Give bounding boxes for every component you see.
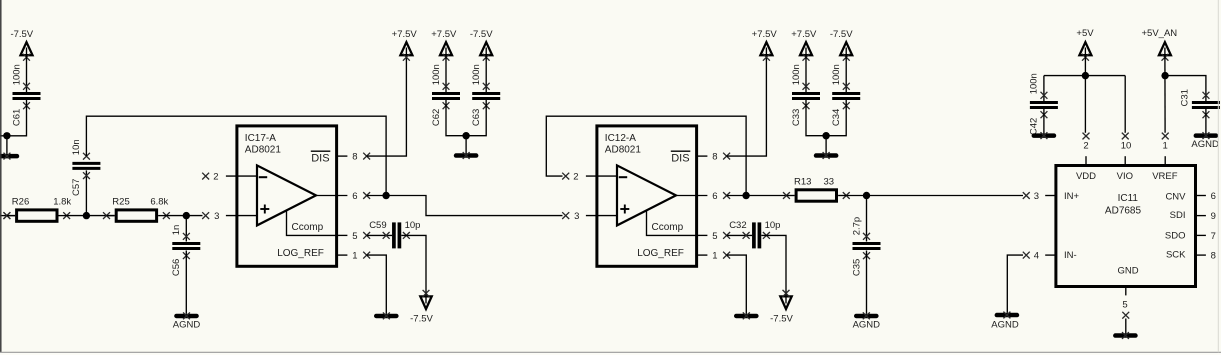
svg-text:1: 1 xyxy=(352,251,357,262)
wire feedback loop IC12-A xyxy=(546,116,746,195)
svg-text:VIO: VIO xyxy=(1117,171,1133,182)
wire R25 to IC17-A pin 3 node xyxy=(166,215,202,217)
svg-text:+7.5V: +7.5V xyxy=(752,29,778,40)
resistor R25 6.8k xyxy=(116,210,156,221)
svg-text:Ccomp: Ccomp xyxy=(652,222,684,233)
svg-text:C56: C56 xyxy=(171,259,182,276)
ground bar below pin 1 IC12-A xyxy=(734,314,759,319)
capacitor C31 100n xyxy=(1203,92,1210,99)
svg-text:2: 2 xyxy=(573,171,578,182)
pin 5 Ccomp IC17-A xyxy=(337,234,348,236)
svg-text:IC17-A: IC17-A xyxy=(245,133,276,144)
svg-text:C42: C42 xyxy=(1029,118,1040,135)
supply -7.5V arrow top left xyxy=(21,42,33,55)
resistor R26 1.8k xyxy=(17,210,57,221)
pin 3 non-inverting input IC12-A xyxy=(562,212,569,219)
wire C32 to -7.5V xyxy=(761,235,786,296)
svg-text:IN+: IN+ xyxy=(1064,191,1080,202)
wire input net IN- entry at left edge xyxy=(0,215,15,217)
svg-text:R13: R13 xyxy=(794,176,811,187)
svg-text:LOG_REF: LOG_REF xyxy=(637,248,684,259)
node junction R26/R25/C57 xyxy=(83,212,90,219)
svg-text:1n: 1n xyxy=(171,225,182,236)
svg-text:7: 7 xyxy=(1211,231,1216,242)
Ccomp internal line IC17-A xyxy=(287,211,337,235)
svg-text:SCK: SCK xyxy=(1166,249,1186,260)
svg-text:-7.5V: -7.5V xyxy=(470,29,493,40)
svg-text:C33: C33 xyxy=(791,109,802,126)
page bottom separator line xyxy=(0,352,1221,355)
pin 3 IN+ IC11 xyxy=(1023,192,1030,199)
svg-text:C32: C32 xyxy=(729,220,746,231)
svg-text:100n: 100n xyxy=(791,64,802,85)
svg-text:10p: 10p xyxy=(765,220,781,231)
pin 4 IN- IC11 xyxy=(1023,252,1030,259)
node output junction IC17-A xyxy=(382,192,389,199)
node junction C61/ground xyxy=(3,132,10,139)
supply +5V arrow xyxy=(1079,42,1091,55)
svg-text:C61: C61 xyxy=(11,109,22,126)
svg-text:SDI: SDI xyxy=(1170,210,1186,221)
svg-text:CNV: CNV xyxy=(1165,191,1186,202)
pin 5 Ccomp IC12-A xyxy=(697,234,708,236)
svg-text:2: 2 xyxy=(1083,141,1088,152)
supply +7.5V arrow above C62 xyxy=(440,42,452,55)
svg-text:+7.5V: +7.5V xyxy=(431,29,457,40)
capacitor C34 100n xyxy=(845,55,847,92)
supply +5V_AN arrow xyxy=(1159,42,1171,55)
svg-text:SDO: SDO xyxy=(1165,231,1186,242)
resistor R13 33 xyxy=(746,195,786,197)
svg-text:C63: C63 xyxy=(471,109,482,126)
ground bar below C62/C63 xyxy=(465,136,467,154)
op-amp U IC12-A AD8021 box xyxy=(597,126,697,266)
svg-text:2: 2 xyxy=(213,171,218,182)
svg-text:GND: GND xyxy=(1118,265,1139,276)
ground AGND below C56 xyxy=(174,314,199,319)
svg-text:5: 5 xyxy=(712,231,717,242)
pin 8 DIS IC17-A xyxy=(337,155,348,157)
pin 2 inverting input IC12-A xyxy=(562,173,569,180)
svg-text:5: 5 xyxy=(352,231,357,242)
supply -7.5V arrow below C59 xyxy=(420,296,431,309)
pin 1 VREF IC11 xyxy=(1162,133,1169,140)
svg-text:C34: C34 xyxy=(831,109,842,126)
pin 8 DIS IC12-A xyxy=(697,155,708,157)
capacitor C56 1n xyxy=(185,216,187,242)
wire R26 to R25 with node xyxy=(67,215,115,217)
pin 6 output IC12-A xyxy=(676,195,707,197)
ground bar below C33/C34 xyxy=(825,136,827,154)
svg-text:-7.5V: -7.5V xyxy=(830,29,853,40)
node output junction IC12-A xyxy=(742,192,749,199)
svg-text:C31: C31 xyxy=(1180,89,1191,106)
wire +5V_AN to VREF and C31 xyxy=(1164,55,1166,133)
node junction C33/C34 xyxy=(822,132,829,139)
supply -7.5V arrow above C63 xyxy=(480,42,492,55)
svg-text:8: 8 xyxy=(1211,251,1216,262)
svg-text:LOG_REF: LOG_REF xyxy=(277,248,324,259)
capacitor C33 100n xyxy=(805,55,807,92)
node junction R13/C35 xyxy=(863,192,870,199)
pin 2 VDD IC11 xyxy=(1083,133,1090,140)
svg-text:AGND: AGND xyxy=(853,320,881,331)
svg-text:3: 3 xyxy=(1034,191,1039,202)
svg-text:100n: 100n xyxy=(431,64,442,85)
svg-text:3: 3 xyxy=(574,211,579,222)
op-amp U IC17-A AD8021 box xyxy=(237,126,337,266)
pin 2 inverting input IC17-A xyxy=(202,173,209,180)
svg-text:Ccomp: Ccomp xyxy=(292,222,324,233)
svg-text:VREF: VREF xyxy=(1152,171,1178,182)
ground AGND below C35 xyxy=(854,314,879,319)
svg-text:10n: 10n xyxy=(71,139,82,155)
capacitor C32 10p xyxy=(752,222,756,248)
Ccomp internal line IC12-A xyxy=(647,211,697,235)
svg-text:C57: C57 xyxy=(71,179,82,196)
wire C59 to -7.5V xyxy=(401,235,426,296)
capacitor C35 2.7p xyxy=(866,196,868,242)
svg-text:-7.5V: -7.5V xyxy=(10,29,33,40)
pin 1 LOG_REF IC17-A xyxy=(337,254,348,256)
minus input mark IC17-A xyxy=(259,176,267,178)
wire pin 8 to +7.5V IC12-A xyxy=(727,57,767,156)
supply +7.5V arrow above C33 xyxy=(800,42,812,55)
pin 3 non-inverting input IC17-A xyxy=(202,212,209,219)
svg-text:1: 1 xyxy=(1163,141,1168,152)
pin 6 output IC17-A xyxy=(316,195,347,197)
capacitor C57 10n feedback xyxy=(85,170,87,215)
svg-text:IC12-A: IC12-A xyxy=(605,133,636,144)
svg-text:33: 33 xyxy=(824,176,835,187)
svg-text:DIS: DIS xyxy=(311,152,329,164)
supply -7.5V arrow above C34 xyxy=(840,42,852,55)
svg-text:2.7p: 2.7p xyxy=(851,217,862,236)
ground AGND below pin 4 xyxy=(995,313,1020,318)
capacitor C42 100n xyxy=(1043,76,1045,101)
node junction C62/C63 xyxy=(462,132,469,139)
svg-text:10p: 10p xyxy=(405,220,421,231)
triangle op-amp symbol IC17-A xyxy=(257,165,316,225)
supply +7.5V arrow for pin 8 IC12-A xyxy=(760,42,772,55)
wire pin 8 to +7.5V IC17-A xyxy=(367,57,407,156)
minus input mark IC12-A xyxy=(619,176,627,178)
pin 6 CNV IC11 xyxy=(1196,195,1206,197)
svg-text:R26: R26 xyxy=(12,196,29,207)
svg-text:C62: C62 xyxy=(431,109,442,126)
svg-text:-7.5V: -7.5V xyxy=(410,313,433,324)
svg-text:IN-: IN- xyxy=(1064,250,1077,261)
svg-text:1: 1 xyxy=(712,251,717,262)
svg-text:100n: 100n xyxy=(11,64,22,85)
wire +5V to VDD and branches xyxy=(1084,55,1086,133)
svg-text:C35: C35 xyxy=(851,259,862,276)
svg-text:100n: 100n xyxy=(1029,73,1040,94)
node junction +5V xyxy=(1082,72,1089,79)
pin 8 SCK IC11 xyxy=(1196,254,1206,256)
pin 7 SDO IC11 xyxy=(1196,234,1206,236)
svg-text:DIS: DIS xyxy=(671,152,689,164)
svg-text:AGND: AGND xyxy=(991,320,1019,331)
ADC IC11 AD7685 box xyxy=(1056,166,1196,287)
svg-text:10: 10 xyxy=(1121,141,1132,152)
svg-text:R25: R25 xyxy=(112,196,129,207)
capacitor C62 100n xyxy=(445,55,447,92)
ground bar below pin 5 IC11 xyxy=(1113,333,1138,338)
svg-text:AGND: AGND xyxy=(173,320,201,331)
pin 5 GND IC11 xyxy=(1125,287,1127,296)
pin 10 VIO IC11 xyxy=(1122,133,1129,140)
ground bar below pin 1 IC17-A xyxy=(374,314,399,319)
svg-text:8: 8 xyxy=(712,152,717,163)
svg-text:AD8021: AD8021 xyxy=(245,145,282,156)
page left border line xyxy=(0,0,2,352)
svg-text:4: 4 xyxy=(1034,250,1039,261)
svg-text:IC11: IC11 xyxy=(1118,193,1139,204)
ground AGND below C31 xyxy=(1194,133,1219,138)
capacitor C61 100n xyxy=(26,55,28,92)
node junction +5V_AN xyxy=(1161,72,1168,79)
svg-text:9: 9 xyxy=(1211,211,1216,222)
svg-text:AD7685: AD7685 xyxy=(1105,206,1142,217)
svg-text:+5V_AN: +5V_AN xyxy=(1142,28,1178,39)
supply +7.5V arrow for pin 8 IC17-A xyxy=(400,42,412,55)
wire R13 node to IC11 IN+ xyxy=(867,195,1024,197)
svg-text:3: 3 xyxy=(214,211,219,222)
svg-text:C59: C59 xyxy=(369,220,386,231)
svg-text:6: 6 xyxy=(712,191,717,202)
svg-text:+7.5V: +7.5V xyxy=(791,29,817,40)
svg-text:8: 8 xyxy=(352,152,357,163)
supply -7.5V arrow below C32 xyxy=(780,296,791,309)
plus input mark IC17-A xyxy=(260,208,269,210)
ground bar below C42 xyxy=(1032,133,1057,138)
svg-text:6: 6 xyxy=(1211,191,1216,202)
page right faint line xyxy=(1217,0,1219,352)
svg-text:AD8021: AD8021 xyxy=(605,145,642,156)
svg-text:1.8k: 1.8k xyxy=(53,196,71,207)
svg-text:6.8k: 6.8k xyxy=(150,196,168,207)
ground bar bottom left xyxy=(6,136,8,154)
svg-text:AGND: AGND xyxy=(1191,139,1219,150)
wire feedback loop IC17-A xyxy=(86,116,386,195)
node junction R25/C56/pin3 xyxy=(183,212,190,219)
svg-text:5: 5 xyxy=(1122,300,1127,311)
svg-text:100n: 100n xyxy=(471,64,482,85)
pin 1 LOG_REF IC12-A xyxy=(697,254,708,256)
wire IC17-A output to IC12-A input xyxy=(386,196,562,216)
svg-text:+5V: +5V xyxy=(1076,28,1094,39)
capacitor C63 100n xyxy=(485,55,487,92)
pin 9 SDI IC11 xyxy=(1196,215,1206,217)
svg-text:6: 6 xyxy=(352,191,357,202)
capacitor C59 10p xyxy=(392,222,396,248)
plus input mark IC12-A xyxy=(620,208,629,210)
svg-text:VDD: VDD xyxy=(1076,171,1096,182)
svg-text:100n: 100n xyxy=(831,64,842,85)
svg-text:-7.5V: -7.5V xyxy=(770,313,793,324)
svg-text:+7.5V: +7.5V xyxy=(392,29,418,40)
wire pin 4 to AGND xyxy=(1007,255,1023,313)
triangle op-amp symbol IC12-A xyxy=(617,165,676,225)
